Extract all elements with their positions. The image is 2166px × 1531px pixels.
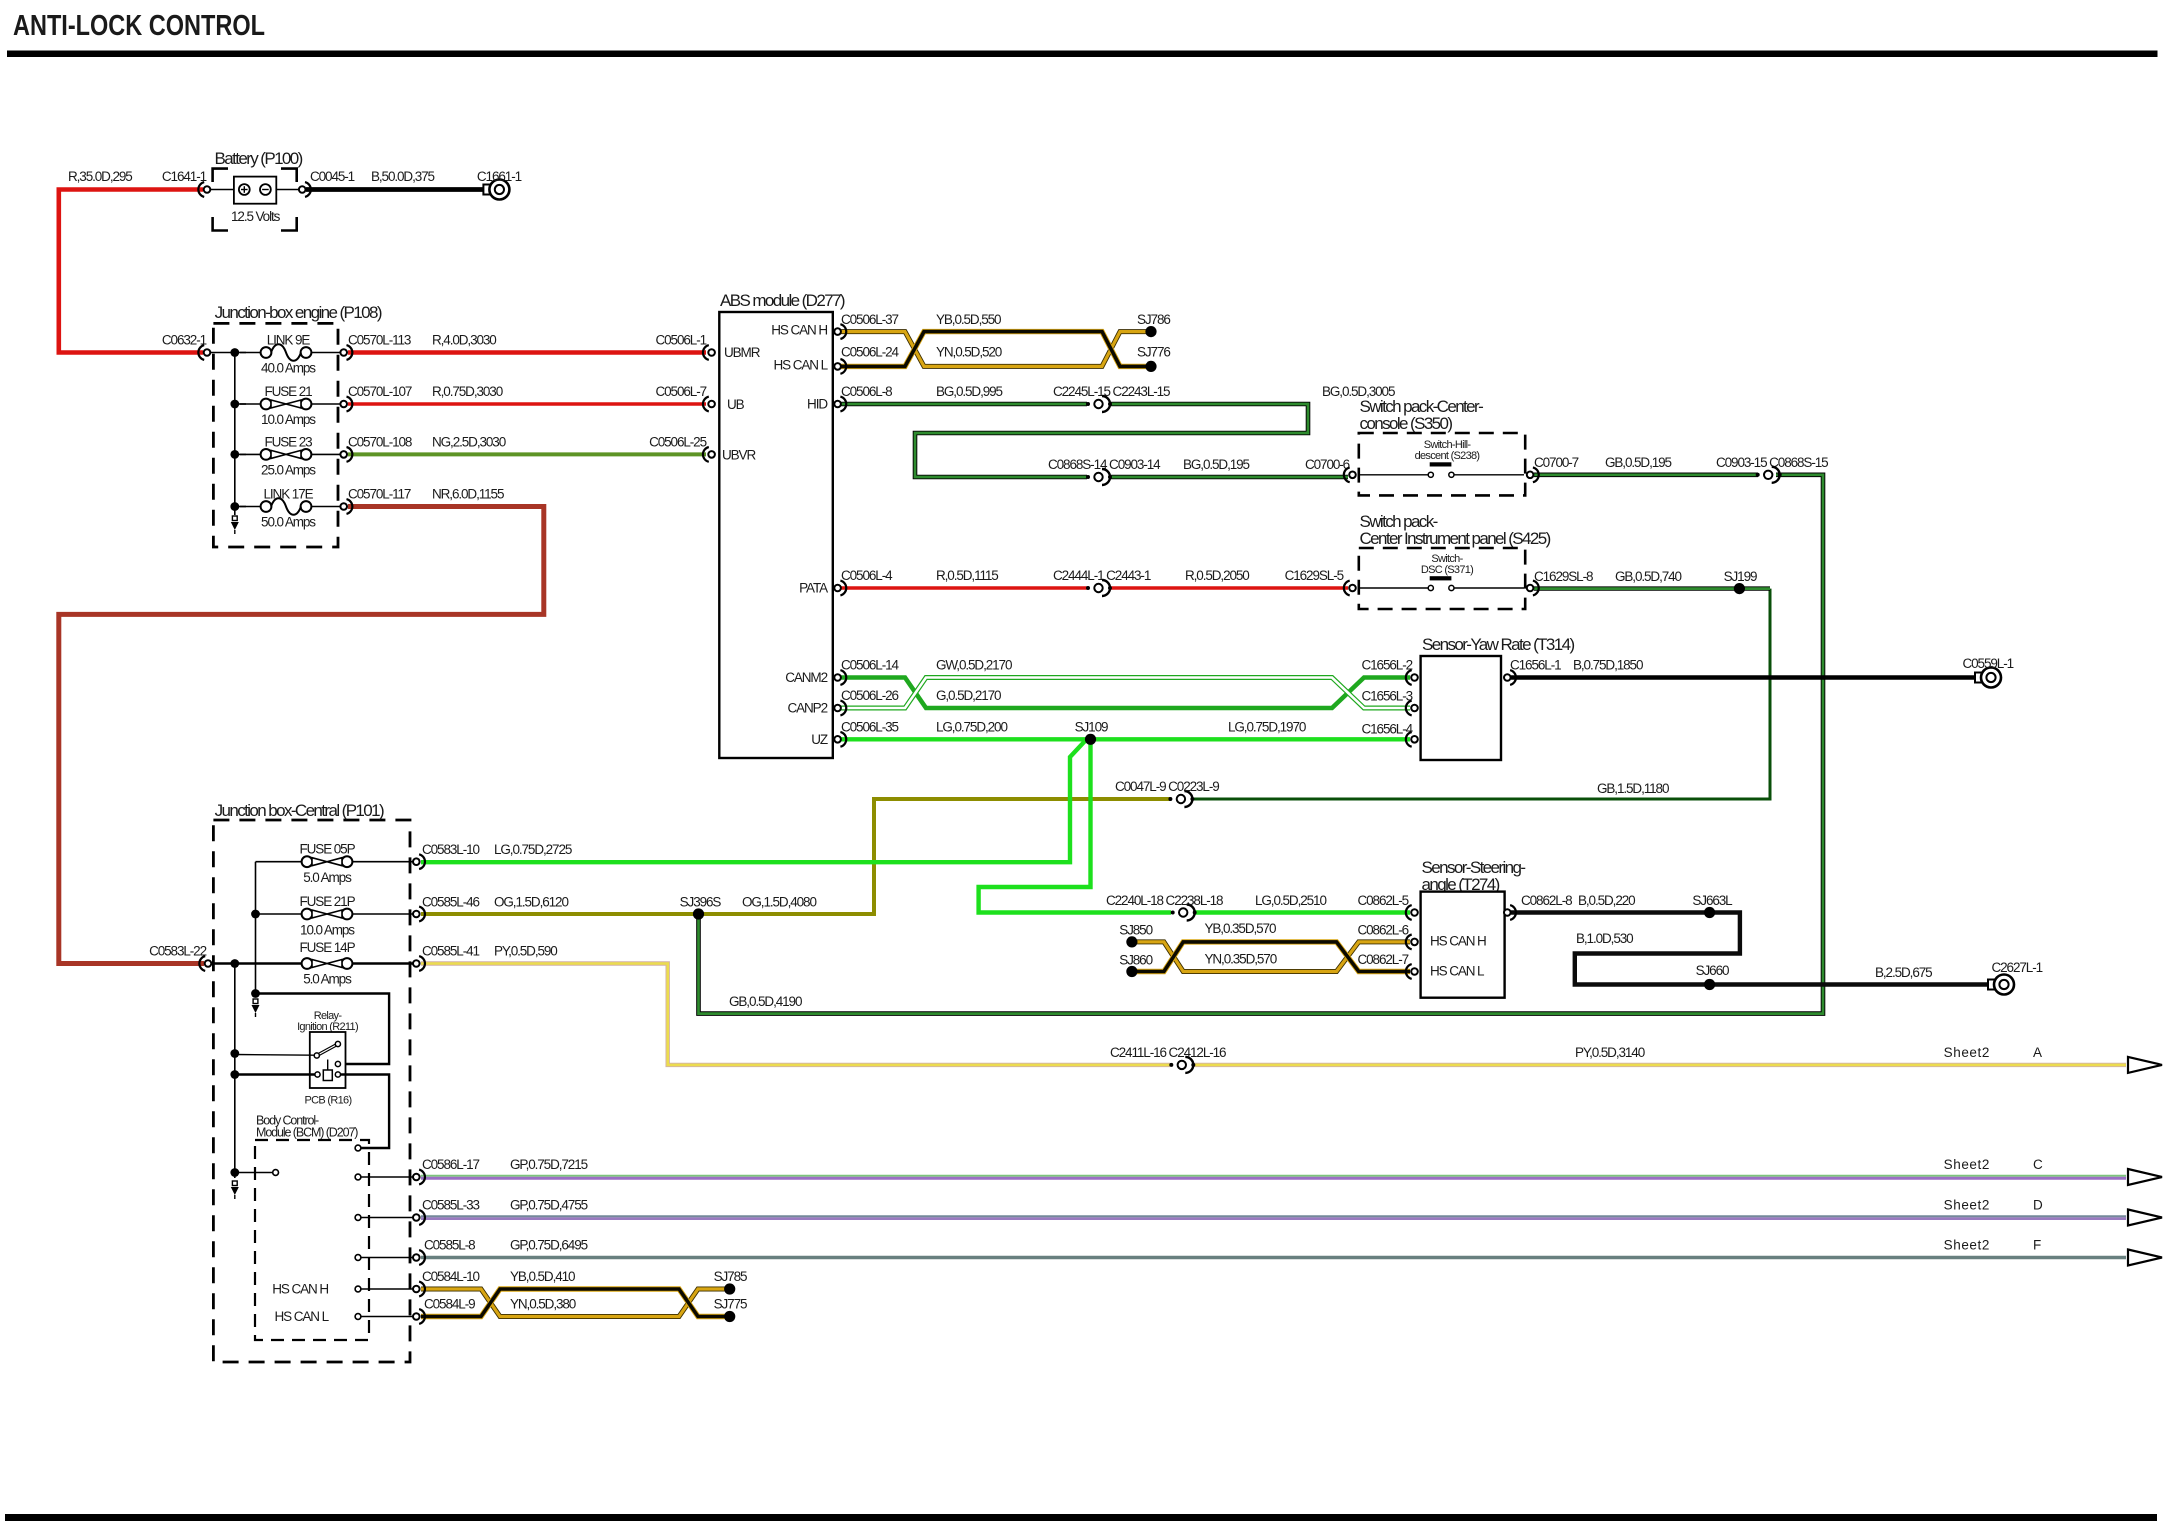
connector C0632-1	[198, 345, 210, 360]
svg-text:B,0.5D,220: B,0.5D,220	[1578, 893, 1635, 908]
splice SJ850	[1126, 936, 1137, 947]
svg-text:PCB (R16): PCB (R16)	[305, 1095, 352, 1107]
svg-text:C0586L-17: C0586L-17	[422, 1157, 479, 1172]
S425 dashed box	[1359, 548, 1525, 609]
wire LG,0.5D,2510 connector to C0862L-5	[1195, 910, 1410, 914]
fuse FUSE 21P	[302, 909, 353, 920]
PY bottom labels	[1169, 1057, 1195, 1073]
svg-text:C0045-1: C0045-1	[310, 169, 355, 184]
svg-text:A: A	[2033, 1045, 2042, 1060]
svg-text:BG,0.5D,195: BG,0.5D,195	[1183, 457, 1250, 472]
svg-text:HS CAN L: HS CAN L	[1430, 964, 1485, 979]
svg-text:LG,0.75D,1970: LG,0.75D,1970	[1228, 719, 1306, 734]
svg-text:GP,0.75D,4755: GP,0.75D,4755	[510, 1198, 588, 1213]
svg-text:C0506L-35: C0506L-35	[841, 719, 898, 734]
wire G,0.5D,2170 solid green CANM2->C1656L-2	[841, 678, 1410, 709]
twisted pair CAN at ABS: YB,0.5D,550 wire	[841, 332, 1146, 367]
junction dots P108 bus	[230, 348, 239, 357]
splice SJ199	[1734, 583, 1745, 594]
wire NR,6.0D,1155 LINK 17E to C0583L-22	[59, 507, 544, 964]
svg-text:GW,0.5D,2170: GW,0.5D,2170	[936, 658, 1012, 673]
svg-text:HS CAN H: HS CAN H	[1430, 934, 1486, 949]
svg-text:Junction box-Central (P101): Junction box-Central (P101)	[215, 801, 384, 820]
svg-text:OG,1.5D,4080: OG,1.5D,4080	[742, 895, 816, 910]
connector C0700-6	[1344, 467, 1356, 482]
svg-text:C2411L-16 C2412L-16: C2411L-16 C2412L-16	[1110, 1045, 1226, 1060]
svg-text:C0506L-25: C0506L-25	[649, 434, 706, 449]
svg-text:C1629SL-8: C1629SL-8	[1534, 569, 1593, 584]
svg-text:C0506L-1: C0506L-1	[656, 333, 707, 348]
svg-text:Module (BCM) (D207): Module (BCM) (D207)	[256, 1126, 358, 1140]
wire R,0.5D,2050	[1110, 586, 1348, 589]
connector C0583L-22	[199, 956, 211, 971]
svg-text:B,2.5D,675: B,2.5D,675	[1875, 965, 1932, 980]
twisted pair CAN at ABS: YN,0.5D,520 wire	[841, 332, 1146, 367]
relay feed from bus	[256, 994, 390, 1065]
svg-text:R,0.75D,3030: R,0.75D,3030	[432, 384, 503, 399]
svg-text:R,0.5D,1115: R,0.5D,1115	[936, 568, 998, 583]
svg-text:C0862L-6: C0862L-6	[1358, 922, 1409, 937]
bus wire P108	[234, 353, 236, 516]
pin UBMR	[703, 345, 715, 360]
svg-text:Junction-box engine (P108): Junction-box engine (P108)	[215, 303, 382, 322]
svg-text:10.0 Amps: 10.0 Amps	[300, 923, 355, 938]
splice SJ109	[1085, 734, 1096, 745]
relay switch out pin	[335, 1061, 340, 1066]
wire OG,1.5D,6120 / OG,1.5D,4080	[421, 799, 1170, 914]
svg-text:Sheet2: Sheet2	[1944, 1157, 1990, 1172]
svg-text:CANP2: CANP2	[787, 701, 827, 716]
wire GB,1.5D,1180 (connector to SJ199 riser)	[1193, 589, 1770, 799]
svg-text:C1629SL-5: C1629SL-5	[1285, 568, 1344, 583]
connector C0045-1	[299, 182, 311, 197]
svg-text:C1656L-2: C1656L-2	[1362, 658, 1413, 673]
svg-text:B,1.0D,530: B,1.0D,530	[1576, 931, 1633, 946]
BCM left pin	[235, 1172, 272, 1174]
fuse FUSE 14P	[211, 962, 301, 964]
svg-text:Center Instrument panel (S425): Center Instrument panel (S425)	[1360, 529, 1551, 548]
sensor steering angle T274 box	[1421, 892, 1505, 998]
ABS module D277 box	[719, 312, 833, 758]
svg-text:PY,0.5D,3140: PY,0.5D,3140	[1575, 1045, 1645, 1060]
wire B,0.5D,220 / B,1.0D,530 / B,2.5D,675	[1511, 913, 1990, 985]
svg-text:SJ860: SJ860	[1119, 952, 1152, 967]
svg-text:C0585L-46: C0585L-46	[422, 895, 479, 910]
svg-text:F: F	[2033, 1238, 2041, 1253]
svg-text:UBMR: UBMR	[724, 345, 761, 360]
svg-text:Sheet2: Sheet2	[1944, 1238, 1990, 1253]
svg-text:C0570L-108: C0570L-108	[348, 434, 412, 449]
battery box	[211, 189, 234, 191]
svg-text:YN,0.35D,570: YN,0.35D,570	[1205, 951, 1277, 966]
svg-text:C0583L-10: C0583L-10	[422, 842, 479, 857]
svg-text:C0506L-37: C0506L-37	[841, 312, 898, 327]
pin PATA	[834, 581, 846, 596]
svg-text:YB,0.35D,570: YB,0.35D,570	[1205, 921, 1276, 936]
svg-text:SJ776: SJ776	[1137, 345, 1170, 360]
svg-text:YB,0.5D,550: YB,0.5D,550	[936, 312, 1001, 327]
twisted pair at BCM: YB,0.5D,410	[421, 1289, 725, 1317]
wire BG,0.5D,195 C0903-14 to C0700-6	[1110, 475, 1348, 480]
connector C0903-15 C0868S-15	[1756, 467, 1782, 483]
svg-text:C0506L-7: C0506L-7	[656, 384, 707, 399]
svg-text:LG,0.5D,2510: LG,0.5D,2510	[1255, 893, 1326, 908]
pin C1656L-2	[1406, 670, 1418, 685]
pin CANP2	[834, 701, 846, 716]
svg-text:SJ786: SJ786	[1137, 312, 1170, 327]
wire R,35.0D,295 battery to C0632-1	[59, 190, 203, 353]
connector C0047L-9 C0223L-9	[1168, 791, 1194, 807]
pin C1656L-1	[1504, 670, 1516, 685]
svg-text:B,0.75D,1850: B,0.75D,1850	[1573, 658, 1643, 673]
svg-text:R,0.5D,2050: R,0.5D,2050	[1185, 568, 1249, 583]
ring terminal C0559L-1	[1975, 668, 2001, 688]
svg-text:NG,2.5D,3030: NG,2.5D,3030	[432, 434, 506, 449]
wire GB,0.5D,740 C1629SL-8 to SJ199	[1534, 586, 1770, 590]
svg-text:C0862L-7: C0862L-7	[1358, 952, 1409, 967]
splice SJ776	[1145, 361, 1156, 372]
svg-text:SJ660: SJ660	[1696, 963, 1729, 978]
splice SJ663L	[1704, 907, 1715, 918]
svg-text:C0700-7: C0700-7	[1534, 455, 1579, 470]
fusible link LINK 17E	[261, 498, 312, 515]
YN,0.35D,570	[1137, 942, 1410, 972]
svg-text:C1661-1: C1661-1	[477, 169, 522, 184]
svg-text:C0632-1: C0632-1	[162, 333, 207, 348]
svg-text:C0506L-26: C0506L-26	[841, 688, 898, 703]
pin UBVR	[703, 447, 715, 462]
relay blade	[235, 1054, 314, 1057]
pin UB	[703, 397, 715, 412]
splice SJ396S	[693, 908, 704, 919]
svg-text:C0570L-113: C0570L-113	[348, 333, 411, 348]
top rule	[7, 51, 2158, 58]
splice SJ660	[1704, 979, 1715, 990]
svg-text:HID: HID	[807, 397, 828, 412]
relay coil out to BCM pin	[341, 1075, 390, 1149]
svg-text:PATA: PATA	[799, 581, 828, 596]
YN,0.5D,380	[421, 1289, 725, 1317]
pin HS CAN L	[834, 359, 846, 374]
connector C1641-1	[198, 182, 210, 197]
svg-text:LINK 17E: LINK 17E	[264, 487, 314, 502]
svg-text:Sensor-Yaw Rate (T314): Sensor-Yaw Rate (T314)	[1422, 635, 1574, 654]
svg-text:GB,1.5D,1180: GB,1.5D,1180	[1597, 781, 1669, 796]
wire GB,0.5D,195 C0700-7 to C0903-15	[1534, 472, 1758, 477]
wire BG,0.5D,3005 loop to C0868S-14	[915, 404, 1308, 477]
svg-text:SJ396S: SJ396S	[680, 895, 722, 910]
svg-text:C1656L-1: C1656L-1	[1510, 658, 1561, 673]
pin UZ	[834, 732, 846, 747]
svg-text:BG,0.5D,995: BG,0.5D,995	[936, 384, 1003, 399]
ring terminal C1661-1	[483, 180, 509, 200]
svg-text:SJ850: SJ850	[1119, 922, 1152, 937]
wire GP,0.75D,7215 (C)	[421, 1175, 2126, 1177]
svg-text:FUSE 21: FUSE 21	[264, 384, 312, 399]
ring terminal C2627L-1	[1988, 975, 2014, 995]
svg-text:C2245L-15 C2243L-15: C2245L-15 C2243L-15	[1053, 384, 1170, 399]
svg-text:ABS module (D277): ABS module (D277)	[720, 291, 845, 310]
wire R,4.0D,3030	[348, 350, 706, 355]
connectors and labels bottom rows	[413, 1170, 425, 1185]
svg-text:GB,0.5D,4190: GB,0.5D,4190	[729, 994, 802, 1009]
svg-text:C1641-1: C1641-1	[162, 169, 207, 184]
svg-text:R,35.0D,295: R,35.0D,295	[68, 169, 132, 184]
fuse FUSE 21	[261, 399, 312, 410]
BCM pin rows	[361, 1176, 416, 1178]
connector C1629SL-8	[1527, 581, 1539, 596]
svg-text:C1656L-4: C1656L-4	[1362, 722, 1414, 737]
svg-text:FUSE 21P: FUSE 21P	[300, 894, 356, 909]
svg-text:C0570L-117: C0570L-117	[348, 487, 411, 502]
wire LG,0.75D,2725 FUSE 05P to SJ109	[421, 741, 1085, 862]
svg-text:PY,0.5D,590: PY,0.5D,590	[494, 944, 557, 959]
svg-text:C0506L-24: C0506L-24	[841, 345, 899, 360]
down arrow P108	[231, 516, 239, 534]
wire GP,0.75D,4755 (D)	[421, 1215, 2126, 1217]
svg-text:YN,0.5D,520: YN,0.5D,520	[936, 345, 1002, 360]
wire R,0.5D,1115 PATA	[841, 586, 1087, 589]
svg-text:D: D	[2033, 1198, 2043, 1213]
pin C0862L-8	[1504, 905, 1516, 920]
svg-text:HS CAN L: HS CAN L	[275, 1309, 330, 1324]
wire NG,2.5D,3030	[348, 452, 706, 456]
wire PY,0.5D,590 + PY,0.5D,3140	[421, 964, 1170, 1065]
connector C2444L-1 C2443-1	[1086, 580, 1112, 596]
splice SJ775	[724, 1311, 735, 1322]
svg-text:B,50.0D,375: B,50.0D,375	[371, 169, 435, 184]
svg-text:SJ775: SJ775	[714, 1297, 747, 1312]
svg-text:LG,0.75D,2725: LG,0.75D,2725	[494, 842, 572, 857]
pin HS CAN H	[834, 324, 846, 339]
svg-text:HS CAN H: HS CAN H	[771, 323, 827, 338]
junction box engine P108 dashed box	[213, 323, 338, 547]
svg-text:GB,0.5D,740: GB,0.5D,740	[1615, 569, 1682, 584]
connector C0700-7	[1527, 467, 1539, 482]
svg-text:C0047L-9 C0223L-9: C0047L-9 C0223L-9	[1115, 779, 1219, 794]
svg-text:25.0 Amps: 25.0 Amps	[261, 462, 316, 477]
splice SJ860	[1126, 966, 1137, 977]
battery minus terminal	[260, 184, 271, 195]
wire B,0.75D,1850 yaw sensor to C0559L-1	[1511, 675, 1979, 679]
svg-text:GP,0.75D,6495: GP,0.75D,6495	[510, 1238, 588, 1253]
svg-text:SJ785: SJ785	[714, 1269, 747, 1284]
bus from FUSE 05P to relay branch	[255, 862, 257, 997]
svg-text:SJ109: SJ109	[1075, 719, 1108, 734]
S350 dashed box	[1359, 433, 1525, 495]
connector C2240L-18 C2238L-18	[1171, 905, 1197, 921]
svg-text:C0559L-1: C0559L-1	[1963, 656, 2014, 671]
svg-text:C2627L-1: C2627L-1	[1992, 960, 2043, 975]
wire UZ LG,0.75D,200 + LG,0.75D,1970	[841, 737, 1410, 741]
svg-text:LINK 9E: LINK 9E	[267, 333, 311, 348]
svg-text:C0585L-33: C0585L-33	[422, 1198, 479, 1213]
pin C1656L-3	[1406, 701, 1418, 716]
wire R,0.75D,3030	[348, 402, 706, 405]
connectors C0570L right side	[340, 345, 352, 360]
svg-text:C0862L-8: C0862L-8	[1521, 893, 1572, 908]
svg-text:C0583L-22: C0583L-22	[149, 944, 206, 959]
pin CANM2	[834, 670, 846, 685]
wire BG,0.5D,995 HID to C2245L-15	[841, 402, 1087, 407]
svg-text:UZ: UZ	[811, 732, 828, 747]
svg-text:50.0 Amps: 50.0 Amps	[261, 515, 316, 530]
wire LG,0.75D,2765 SJ109 down to C2240L-18	[979, 739, 1171, 912]
svg-text:GB,0.5D,195: GB,0.5D,195	[1605, 455, 1672, 470]
svg-text:12.5 Volts: 12.5 Volts	[231, 209, 281, 224]
wire B,50.0D,375 battery to C1661-1	[306, 187, 484, 192]
svg-text:OG,1.5D,6120: OG,1.5D,6120	[494, 895, 568, 910]
svg-text:descent (S238): descent (S238)	[1415, 450, 1480, 462]
connector C0868S-14 C0903-14	[1086, 469, 1112, 485]
sheet arrow A	[2128, 1057, 2162, 1073]
pin C0862L-5	[1406, 905, 1418, 920]
svg-text:Sheet2: Sheet2	[1944, 1198, 1990, 1213]
svg-text:HS CAN L: HS CAN L	[774, 357, 829, 372]
svg-text:UBVR: UBVR	[722, 448, 756, 463]
svg-text:DSC (S371): DSC (S371)	[1421, 564, 1473, 576]
svg-text:C0506L-14: C0506L-14	[841, 658, 899, 673]
battery corner brackets	[213, 169, 297, 231]
fuse FUSE 23	[261, 449, 312, 460]
pin C1656L-4	[1406, 732, 1418, 747]
bottom rule	[5, 1514, 2157, 1521]
pin C0862L-7	[1406, 964, 1418, 979]
svg-text:SJ199: SJ199	[1724, 569, 1757, 584]
svg-text:Battery (P100): Battery (P100)	[215, 149, 303, 168]
relay coil	[327, 1060, 329, 1071]
wire GW,0.5D,2170 hollow CANP2->C1656L-3	[841, 678, 1410, 709]
fusible link LINK 9E	[261, 344, 312, 361]
svg-text:10.0 Amps: 10.0 Amps	[261, 412, 316, 427]
svg-text:C: C	[2033, 1157, 2043, 1172]
svg-text:YN,0.5D,380: YN,0.5D,380	[510, 1297, 576, 1312]
svg-text:CANM2: CANM2	[785, 670, 827, 685]
svg-text:C0862L-5: C0862L-5	[1358, 893, 1409, 908]
svg-text:LG,0.75D,200: LG,0.75D,200	[936, 719, 1007, 734]
splice SJ786	[1145, 326, 1156, 337]
svg-text:C0506L-8: C0506L-8	[841, 384, 892, 399]
svg-text:C2444L-1 C2443-1: C2444L-1 C2443-1	[1053, 568, 1151, 583]
svg-text:C0584L-9: C0584L-9	[424, 1297, 475, 1312]
sensor yaw rate T314 box	[1421, 656, 1501, 760]
wire GB,0.5D,4190 big loop SJ396S..C0903-15	[699, 475, 1824, 1014]
svg-text:C0585L-8: C0585L-8	[424, 1238, 475, 1253]
pin HID	[834, 397, 846, 412]
svg-text:C0585L-41: C0585L-41	[422, 944, 479, 959]
pin C0862L-6	[1406, 935, 1418, 950]
svg-text:5.0 Amps: 5.0 Amps	[303, 972, 352, 987]
svg-text:5.0 Amps: 5.0 Amps	[303, 870, 352, 885]
svg-text:40.0 Amps: 40.0 Amps	[261, 361, 316, 376]
svg-text:FUSE 05P: FUSE 05P	[300, 842, 356, 857]
svg-text:NR,6.0D,1155: NR,6.0D,1155	[432, 487, 504, 502]
svg-text:Sheet2: Sheet2	[1944, 1045, 1990, 1060]
leads to fuse elements	[240, 352, 263, 354]
twisted pair at steering sensor: YB,0.35D,570	[1137, 942, 1410, 972]
svg-text:ANTI-LOCK CONTROL: ANTI-LOCK CONTROL	[13, 10, 265, 42]
svg-text:HS CAN H: HS CAN H	[272, 1282, 328, 1297]
connector C1629SL-5	[1344, 581, 1356, 596]
main left bus	[234, 964, 236, 1179]
svg-text:G,0.5D,2170: G,0.5D,2170	[936, 688, 1001, 703]
svg-text:C0700-6: C0700-6	[1305, 457, 1350, 472]
svg-text:C0570L-107: C0570L-107	[348, 384, 412, 399]
svg-text:SJ663L: SJ663L	[1692, 893, 1733, 908]
fuse FUSE 05P	[302, 856, 353, 867]
svg-text:YB,0.5D,410: YB,0.5D,410	[510, 1269, 575, 1284]
svg-text:C1656L-3: C1656L-3	[1362, 689, 1413, 704]
svg-text:GP,0.75D,7215: GP,0.75D,7215	[510, 1157, 588, 1172]
battery plus terminal	[239, 184, 250, 195]
svg-text:C0584L-10: C0584L-10	[422, 1269, 479, 1284]
svg-text:FUSE 23: FUSE 23	[264, 434, 312, 449]
connector C2245L-15 C2243L-15	[1086, 396, 1112, 412]
svg-text:UB: UB	[727, 397, 745, 412]
svg-text:C0506L-4: C0506L-4	[841, 568, 893, 583]
svg-text:console (S350): console (S350)	[1360, 414, 1453, 433]
wire GP,0.75D,6495 (F)	[421, 1256, 2126, 1259]
svg-text:FUSE 14P: FUSE 14P	[300, 940, 356, 955]
splice SJ785	[724, 1283, 735, 1294]
svg-text:R,4.0D,3030: R,4.0D,3030	[432, 333, 496, 348]
svg-text:C2240L-18 C2238L-18: C2240L-18 C2238L-18	[1106, 893, 1223, 908]
